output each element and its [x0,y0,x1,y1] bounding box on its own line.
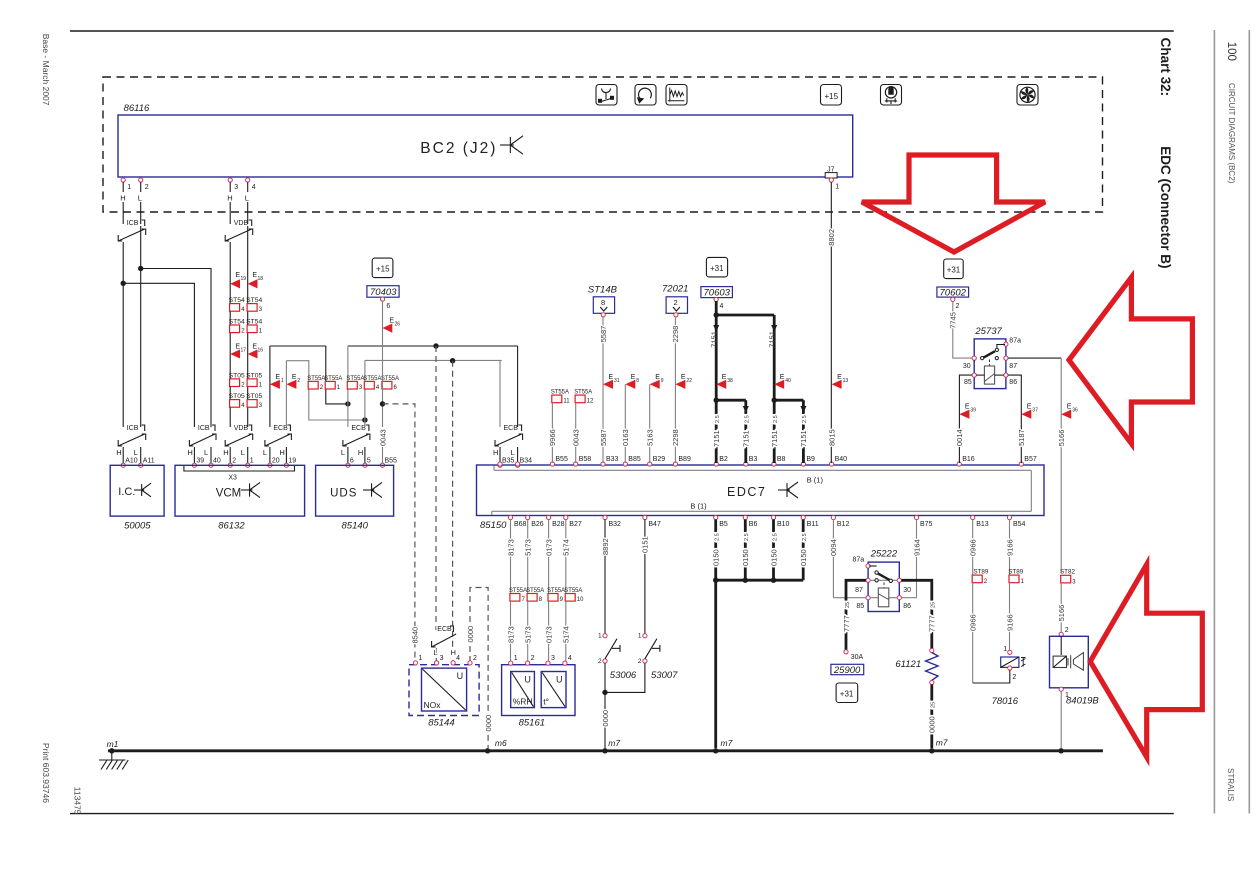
svg-text:B27: B27 [569,521,582,528]
svg-text:0014: 0014 [955,429,964,446]
svg-text:A11: A11 [143,458,155,465]
svg-text:ST55A: ST55A [324,375,343,382]
svg-text:5587: 5587 [599,429,608,446]
svg-text:6: 6 [350,458,354,465]
svg-text:2.5: 2.5 [802,533,808,541]
svg-text:26: 26 [395,322,401,328]
svg-text:5174: 5174 [562,626,571,643]
svg-text:ST54: ST54 [229,297,246,304]
svg-text:87a: 87a [1009,337,1021,344]
svg-text:78016: 78016 [992,696,1019,707]
svg-text:L: L [204,448,208,457]
svg-text:m7: m7 [721,738,733,748]
svg-text:ECB: ECB [437,626,452,633]
svg-text:13: 13 [843,378,849,384]
svg-text:2: 2 [674,298,678,307]
svg-text:ST54: ST54 [229,319,246,326]
svg-text:3: 3 [234,184,238,191]
svg-text:9: 9 [661,378,664,384]
svg-text:31: 31 [614,378,620,384]
svg-text:E: E [837,374,842,381]
svg-text:9166: 9166 [1005,539,1014,556]
svg-text:1: 1 [514,655,518,662]
svg-text:30A: 30A [851,654,864,661]
svg-text:B34: B34 [520,458,533,465]
svg-text:5163: 5163 [646,429,655,446]
svg-text:B2: B2 [719,456,728,463]
svg-text:ST55A: ST55A [346,375,365,382]
svg-text:7151: 7151 [799,430,808,447]
svg-text:86132: 86132 [218,521,245,532]
svg-text:7151: 7151 [710,331,719,348]
svg-text:B47: B47 [648,521,661,528]
svg-text:12: 12 [587,399,594,405]
svg-text:Print 603.93746: Print 603.93746 [41,743,51,803]
svg-text:2298: 2298 [671,326,680,343]
svg-text:A10: A10 [125,458,138,465]
svg-text:+31: +31 [710,264,724,273]
svg-text:38: 38 [727,378,733,384]
svg-text:ST89: ST89 [1008,568,1023,575]
svg-text:B28: B28 [552,521,565,528]
svg-text:40: 40 [213,458,221,465]
svg-text:0000: 0000 [601,710,610,727]
svg-text:ST55A: ST55A [526,587,545,594]
svg-text:B40: B40 [835,456,848,463]
svg-text:100: 100 [1225,42,1237,61]
svg-text:86116: 86116 [124,103,150,114]
svg-text:17: 17 [241,347,247,353]
svg-text:B10: B10 [777,521,790,528]
svg-text:L: L [434,648,438,657]
svg-text:2.5: 2.5 [744,533,750,541]
svg-text:85: 85 [964,379,972,386]
svg-text:85: 85 [856,603,864,610]
svg-text:61121: 61121 [895,659,921,670]
svg-text:8540: 8540 [411,627,420,644]
svg-text:11: 11 [563,399,570,405]
svg-text:B26: B26 [531,521,544,528]
svg-text:25: 25 [931,702,937,708]
svg-text:30: 30 [903,587,911,594]
svg-text:ICB: ICB [127,425,139,432]
svg-text:B11: B11 [807,521,819,528]
svg-text:5166: 5166 [1057,605,1066,622]
svg-text:5: 5 [367,458,371,465]
svg-text:L: L [263,448,267,457]
svg-text:E: E [655,374,660,381]
svg-text:1: 1 [127,184,131,191]
svg-text:ICB: ICB [198,425,210,432]
svg-text:STRALIS: STRALIS [1226,768,1235,801]
svg-text:30: 30 [963,363,971,370]
svg-text:UDS: UDS [330,488,357,500]
svg-text:1: 1 [281,378,284,384]
svg-text:B33: B33 [606,456,619,463]
svg-text:86: 86 [903,603,911,610]
svg-text:L: L [245,194,249,203]
svg-text:VDB: VDB [234,425,249,432]
svg-text:B68: B68 [514,521,527,528]
svg-text:2: 2 [531,655,535,662]
svg-text:8892: 8892 [601,538,610,555]
svg-text:X3: X3 [228,475,237,482]
svg-text:4: 4 [252,184,256,191]
svg-text:85144: 85144 [428,718,454,729]
svg-text:ST05: ST05 [246,393,263,400]
svg-text:2.5: 2.5 [773,415,779,423]
svg-text:E: E [681,374,686,381]
svg-text:5587: 5587 [599,326,608,343]
svg-text:85150: 85150 [480,520,507,531]
svg-text:0150: 0150 [799,549,808,566]
svg-text:1: 1 [835,183,839,190]
svg-text:3: 3 [440,655,444,662]
svg-text:3: 3 [551,655,555,662]
svg-text:7151: 7151 [768,331,777,348]
svg-text:72021: 72021 [662,283,688,294]
svg-text:E: E [609,374,614,381]
svg-text:5173: 5173 [524,539,533,556]
svg-text:+31: +31 [840,690,854,699]
svg-text:ST55A: ST55A [363,375,382,382]
svg-text:25222: 25222 [870,549,898,560]
svg-text:2: 2 [956,303,960,310]
svg-text:8173: 8173 [506,539,515,556]
svg-text:9166: 9166 [1005,614,1014,631]
svg-text:8802: 8802 [827,229,836,246]
svg-text:Base - March 2007: Base - March 2007 [41,34,51,106]
svg-text:ST55A: ST55A [551,389,570,396]
svg-text:2: 2 [638,658,642,665]
svg-text:B32: B32 [609,521,622,528]
svg-text:ST82: ST82 [1060,568,1075,575]
svg-text:ST05: ST05 [229,393,246,400]
svg-text:Chart 32:: Chart 32: [1158,38,1173,97]
svg-text:m7: m7 [608,738,620,748]
svg-text:J7: J7 [827,166,835,173]
svg-text:B9: B9 [806,456,815,463]
svg-text:0150: 0150 [769,549,778,566]
svg-text:B54: B54 [1013,521,1026,528]
svg-text:EDC7: EDC7 [727,485,766,499]
svg-text:19: 19 [288,458,296,465]
svg-text:B3: B3 [749,456,758,463]
svg-text:E: E [1067,404,1072,411]
svg-text:ST54: ST54 [246,297,263,304]
svg-text:5173: 5173 [524,626,533,643]
svg-text:H: H [187,448,192,457]
svg-text:E: E [275,374,280,381]
svg-text:0000: 0000 [484,715,493,732]
svg-text:B5: B5 [719,521,728,528]
svg-text:84019B: 84019B [1066,696,1099,707]
svg-text:B (1): B (1) [690,502,707,511]
svg-text:B12: B12 [837,521,850,528]
svg-text:ST55A: ST55A [547,587,566,594]
svg-text:22: 22 [686,378,692,384]
svg-text:113475: 113475 [73,787,83,815]
svg-text:40: 40 [785,378,791,384]
svg-text:I.C.: I.C. [118,486,135,498]
svg-text:2: 2 [473,655,477,662]
svg-text:0163: 0163 [621,429,630,446]
svg-text:10: 10 [577,597,584,603]
svg-text:m7: m7 [936,737,948,747]
svg-text:6: 6 [386,303,390,310]
svg-text:t°: t° [543,697,549,707]
svg-text:53007: 53007 [651,670,678,681]
svg-text:B6: B6 [749,521,758,528]
svg-text:B55: B55 [555,456,568,463]
svg-text:2.5: 2.5 [715,533,721,541]
svg-text:87a: 87a [853,557,865,564]
svg-text:70403: 70403 [370,287,397,298]
svg-text:H: H [279,448,284,457]
svg-text:0150: 0150 [712,549,721,566]
svg-text:E: E [631,374,636,381]
svg-text:50005: 50005 [124,521,151,532]
svg-text:H: H [358,448,363,457]
svg-text:2: 2 [598,658,602,665]
svg-text:0150: 0150 [741,549,750,566]
svg-text:L: L [341,448,345,457]
svg-text:m1: m1 [107,739,119,749]
svg-text:5174: 5174 [562,539,571,556]
svg-text:B13: B13 [976,521,989,528]
svg-text:L: L [511,448,515,457]
svg-text:0000: 0000 [466,626,475,643]
svg-text:B8: B8 [777,456,786,463]
svg-text:7745: 7745 [949,312,958,329]
svg-text:85140: 85140 [342,521,369,532]
svg-text:7151: 7151 [712,430,721,447]
svg-text:+15: +15 [825,92,839,101]
svg-text:EDC (Connector B): EDC (Connector B) [1158,146,1173,268]
svg-text:2.5: 2.5 [745,415,751,423]
svg-text:16: 16 [258,347,264,353]
svg-text:53006: 53006 [610,670,637,681]
svg-text:85161: 85161 [519,718,545,729]
svg-text:2298: 2298 [671,429,680,446]
svg-text:B85: B85 [628,456,641,463]
svg-text:2.5: 2.5 [715,415,721,423]
svg-text:36: 36 [1072,408,1078,414]
svg-text:18: 18 [258,276,264,282]
svg-text:ST05: ST05 [229,372,246,379]
svg-text:H: H [493,448,498,457]
svg-text:0173: 0173 [544,626,553,643]
svg-text:B35: B35 [502,458,515,465]
svg-text:7151: 7151 [770,430,779,447]
svg-text:B89: B89 [678,456,691,463]
svg-text:7777: 7777 [928,615,937,632]
svg-text:+31: +31 [947,266,961,275]
svg-text:B75: B75 [920,521,933,528]
svg-text:VCM: VCM [216,488,242,500]
svg-text:H: H [116,448,121,457]
svg-text:U: U [524,675,531,685]
svg-text:39: 39 [196,458,204,465]
svg-text:ST14B: ST14B [588,285,618,296]
svg-text:7151: 7151 [742,430,751,447]
svg-text:E: E [1027,404,1032,411]
svg-text:0043: 0043 [572,429,581,446]
svg-text:1: 1 [638,633,642,640]
svg-text:ST55A: ST55A [381,375,400,382]
svg-text:BC2 (J2): BC2 (J2) [420,140,497,157]
svg-text:%RH: %RH [513,697,533,707]
svg-text:4: 4 [720,303,724,310]
svg-text:1: 1 [598,633,602,640]
svg-text:B57: B57 [1024,456,1037,463]
svg-text:CIRCUIT DIAGRAMS (BC2): CIRCUIT DIAGRAMS (BC2) [1227,83,1236,184]
svg-text:0966: 0966 [969,614,978,631]
svg-text:87: 87 [1009,363,1017,370]
svg-text:2: 2 [297,378,300,384]
svg-text:B29: B29 [653,456,666,463]
svg-text:B58: B58 [579,456,592,463]
svg-text:0151: 0151 [641,536,650,553]
svg-text:1: 1 [1003,646,1007,653]
svg-text:1: 1 [418,655,422,662]
svg-text:L: L [241,448,245,457]
svg-text:1: 1 [250,458,254,465]
svg-text:m6: m6 [495,738,507,748]
svg-text:+15: +15 [376,265,390,274]
svg-text:NOx: NOx [424,700,442,710]
svg-text:H: H [223,448,228,457]
svg-text:U: U [457,671,464,681]
svg-text:H: H [227,194,232,203]
svg-text:25737: 25737 [974,326,1002,337]
svg-text:2: 2 [1012,674,1016,681]
svg-text:B (1): B (1) [807,476,824,485]
svg-text:H: H [451,648,456,657]
svg-text:E: E [722,374,727,381]
svg-text:2.5: 2.5 [802,415,808,423]
svg-text:ECB: ECB [504,425,519,432]
svg-text:ST55A: ST55A [509,587,528,594]
svg-text:H: H [120,194,125,203]
svg-text:8: 8 [636,378,639,384]
svg-text:ST89: ST89 [973,568,988,575]
svg-text:5166: 5166 [1057,430,1066,447]
svg-text:E: E [965,404,970,411]
svg-text:U: U [556,675,563,685]
svg-text:ST55A: ST55A [564,587,583,594]
svg-text:E: E [780,374,785,381]
svg-text:E: E [292,374,297,381]
svg-text:4: 4 [456,655,460,662]
svg-text:VDB: VDB [234,220,249,227]
svg-text:ST55A: ST55A [307,375,326,382]
svg-text:4: 4 [568,655,572,662]
svg-text:9966: 9966 [548,429,557,446]
svg-text:L: L [138,194,142,203]
svg-text:L: L [134,448,138,457]
svg-text:25900: 25900 [833,665,861,676]
svg-text:ICB: ICB [127,220,139,227]
svg-text:B55: B55 [385,458,398,465]
svg-text:0966: 0966 [969,539,978,556]
svg-text:2.5: 2.5 [772,533,778,541]
svg-text:2: 2 [232,458,236,465]
svg-text:25: 25 [931,602,937,608]
svg-text:ST05: ST05 [246,372,263,379]
svg-text:0043: 0043 [378,429,387,446]
svg-text:ST54: ST54 [246,319,263,326]
svg-text:86: 86 [1009,379,1017,386]
svg-text:39: 39 [970,408,976,414]
svg-text:2: 2 [145,184,149,191]
svg-text:70603: 70603 [704,288,731,299]
svg-text:20: 20 [272,458,280,465]
svg-text:B16: B16 [962,456,975,463]
svg-text:0000: 0000 [928,716,937,733]
svg-text:87: 87 [855,587,863,594]
svg-text:8015: 8015 [827,429,836,446]
svg-text:7777: 7777 [842,615,851,632]
svg-text:5187: 5187 [1017,429,1026,446]
svg-text:ECB: ECB [351,425,366,432]
svg-text:8173: 8173 [506,626,515,643]
svg-text:ST55A: ST55A [574,389,593,396]
svg-text:25: 25 [845,602,851,608]
svg-text:0173: 0173 [544,539,553,556]
svg-text:8: 8 [601,298,605,307]
svg-text:37: 37 [1032,408,1038,414]
svg-text:2: 2 [1065,627,1069,634]
svg-text:9164: 9164 [912,539,921,556]
svg-text:0094: 0094 [829,539,838,556]
svg-text:19: 19 [241,276,247,282]
